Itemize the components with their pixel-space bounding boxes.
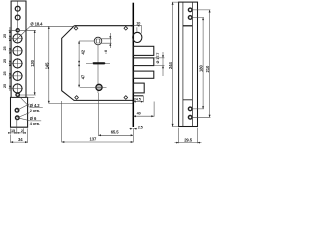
svg-text:180: 180 [198, 65, 203, 72]
svg-text:40: 40 [137, 112, 141, 116]
svg-text:42: 42 [81, 49, 86, 54]
svg-text:2 отв.: 2 отв. [30, 109, 40, 113]
svg-text:2.5: 2.5 [138, 125, 143, 129]
svg-text:34: 34 [18, 137, 23, 142]
svg-text:Ø 4.2: Ø 4.2 [30, 103, 41, 108]
svg-text:Ø 18.4: Ø 18.4 [30, 22, 43, 27]
svg-text:25: 25 [3, 84, 7, 88]
svg-text:25: 25 [3, 59, 7, 63]
svg-text:Ø 17.7: Ø 17.7 [156, 53, 160, 64]
svg-text:145: 145 [44, 62, 49, 69]
svg-text:130: 130 [30, 59, 35, 66]
svg-text:□8: □8 [104, 50, 108, 54]
svg-text:29.5: 29.5 [184, 138, 193, 143]
svg-text:4 отв.: 4 отв. [30, 122, 40, 126]
svg-text:2: 2 [21, 129, 23, 133]
svg-text:47: 47 [81, 74, 86, 79]
svg-text:244: 244 [168, 62, 173, 69]
svg-text:24.5: 24.5 [134, 97, 141, 101]
svg-text:25: 25 [3, 71, 7, 75]
svg-text:15: 15 [11, 129, 15, 133]
svg-text:25: 25 [3, 34, 7, 38]
svg-text:10: 10 [136, 22, 140, 26]
svg-text:Ø 6: Ø 6 [30, 116, 37, 121]
svg-text:137: 137 [90, 137, 97, 142]
svg-text:65.5: 65.5 [111, 129, 120, 134]
svg-text:210: 210 [205, 65, 210, 72]
svg-text:25: 25 [3, 46, 7, 50]
